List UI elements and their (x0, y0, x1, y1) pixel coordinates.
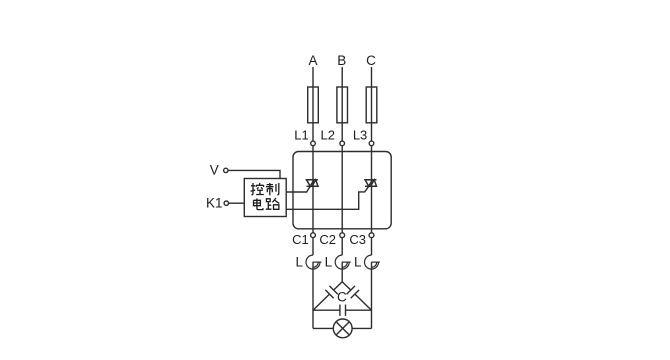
wire C1 to reactor (312, 238, 314, 256)
capacitor C left leg plates (325, 286, 338, 298)
label L1 (294, 128, 308, 143)
svg-text:L: L (295, 254, 303, 269)
capacitor C left leg wires (313, 282, 342, 311)
triac V1 on phase L1 (307, 180, 319, 187)
terminal L2 (340, 141, 345, 146)
fuse FU2 (337, 87, 348, 123)
label L3 (353, 128, 367, 143)
svg-text:C3: C3 (349, 232, 366, 247)
fuse FU1 (308, 87, 319, 123)
wire L1 to C1 through module (312, 146, 314, 233)
svg-text:L3: L3 (353, 128, 367, 143)
wire phase B (341, 67, 343, 141)
terminal C1 (311, 233, 316, 238)
capacitor C right leg plates (347, 286, 360, 298)
terminal V (224, 168, 228, 172)
terminal L1 (311, 141, 316, 146)
wire C3 to reactor (371, 238, 373, 256)
label C (337, 290, 347, 305)
wire K1 to control box (229, 202, 245, 204)
wire phase1 reactor to lamp row (312, 262, 314, 329)
svg-text:L: L (325, 254, 333, 269)
reactor L phase 1 (306, 255, 322, 269)
node B (337, 53, 346, 68)
terminal C2 (340, 233, 345, 238)
wire delta bottom left (313, 309, 340, 311)
wire lamp left (313, 327, 333, 329)
label C1 (292, 232, 309, 247)
terminal L3 (369, 141, 374, 146)
control circuit box U1 (244, 179, 286, 217)
label 制 (266, 183, 279, 195)
svg-text:L1: L1 (294, 128, 308, 143)
wire L3 to C3 through module (371, 146, 373, 233)
capacitor C right leg wires (342, 282, 371, 311)
svg-text:A: A (308, 53, 317, 68)
label 电 (electric) (254, 198, 263, 209)
lamp EL (333, 319, 352, 338)
wire phase3 reactor to lamp row (371, 262, 373, 329)
wire phase2 reactor to delta apex (341, 262, 343, 282)
gate wire triac V2 (286, 186, 369, 209)
svg-text:C2: C2 (319, 232, 336, 247)
wire L2 to C2 through module (341, 146, 343, 233)
soft starter module box (293, 152, 391, 229)
svg-text:B: B (337, 53, 346, 68)
capacitor C bottom leg plates (340, 305, 346, 316)
svg-text:C: C (337, 290, 347, 305)
svg-text:C: C (366, 53, 376, 68)
svg-text:K1: K1 (206, 195, 223, 210)
triac V2 on phase L3 (365, 180, 377, 187)
fuse FU3 (366, 87, 377, 123)
wire phase C (371, 67, 373, 141)
gate wire triac V1 (286, 186, 310, 192)
wire lamp right (352, 327, 371, 329)
node C (366, 53, 376, 68)
label L reactor 3 (354, 254, 362, 269)
label L reactor 2 (325, 254, 333, 269)
reactor L phase 2 (335, 255, 350, 269)
label K1 (206, 195, 223, 210)
svg-text:L: L (354, 254, 362, 269)
svg-text:V: V (210, 163, 219, 178)
node A (308, 53, 317, 68)
label 控 (control) (251, 183, 264, 195)
label 路 (circuit/path) (266, 198, 280, 209)
wire V to control box (228, 170, 280, 178)
label C3 (349, 232, 366, 247)
wire phase A (312, 67, 314, 141)
label C2 (319, 232, 336, 247)
label V (210, 163, 219, 178)
label L reactor 1 (295, 254, 303, 269)
svg-text:C1: C1 (292, 232, 309, 247)
wire delta bottom right (346, 309, 372, 311)
wire C2 to reactor (341, 238, 343, 256)
terminal C3 (369, 233, 374, 238)
terminal K1 (224, 201, 228, 205)
svg-text:L2: L2 (321, 128, 335, 143)
reactor L phase 3 (365, 255, 381, 269)
label L2 (321, 128, 335, 143)
